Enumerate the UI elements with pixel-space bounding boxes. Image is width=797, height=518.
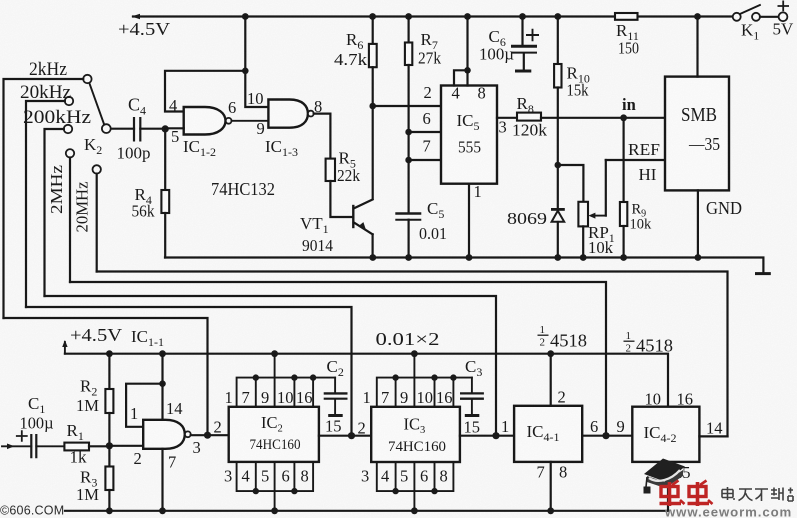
pin 2 label IC3	[358, 419, 366, 438]
wire: IC4-1 pin7/8 to ground	[550, 462, 552, 511]
wire: IC4-2 pin15 to ground	[668, 462, 691, 511]
nand gate IC1-3	[268, 100, 313, 128]
ground symbol	[755, 272, 771, 275]
pin 10 label	[247, 89, 264, 108]
junction dots on top ground rail	[369, 254, 701, 261]
wire: 555 pin6	[409, 131, 441, 133]
pin labels 2 7 3 of IC1-1	[134, 438, 201, 472]
wire: GND lead of SMB	[698, 190, 742, 257]
pin 15 label IC2	[325, 417, 342, 436]
junction dots on +5V rail	[242, 13, 701, 20]
label IC1-2	[183, 137, 216, 159]
watermark site name characters	[722, 487, 793, 501]
capacitor C5	[395, 199, 447, 258]
resistor R3	[76, 446, 113, 511]
junction node C4/R4/pin5	[162, 125, 169, 132]
switch K2 pole and arm	[84, 83, 111, 157]
junction dot collector node	[369, 103, 376, 110]
wire: 555 pin1 to ground rail	[468, 184, 470, 258]
resistor R6	[334, 17, 377, 199]
junction node R1/R2/R3	[106, 442, 113, 449]
wire: +4.5V bottom rail	[62, 340, 668, 407]
label IC1-3	[265, 137, 298, 159]
resistor R5	[326, 149, 361, 186]
wire: IC2 pin15 to IC3 pin2	[319, 432, 371, 439]
capacitor C6	[479, 17, 539, 72]
op IC5 555 timer box	[441, 86, 497, 184]
wire: 200kHz feedback line	[45, 296, 497, 436]
junction dot zener node	[555, 162, 562, 169]
pin labels 1 14 of IC1-1	[130, 399, 183, 423]
pin labels 10 16 of IC4-2	[645, 390, 694, 409]
IC3 bottom pin labels 3 4 5 6 8	[361, 467, 448, 486]
wire: pin14 drop from rail	[159, 354, 166, 420]
counter IC3 74HC160 box	[371, 407, 460, 462]
wire: 2kHz feedback line	[4, 318, 208, 435]
IC2 bottom pin labels 3 4 5 6 8	[224, 467, 309, 486]
pin 9 label	[257, 119, 265, 138]
pin 2 label IC2	[214, 418, 222, 437]
wire: IC4-1 pin2 drop from rail	[550, 354, 552, 406]
switch K1	[733, 5, 779, 43]
wire: gate IC1-2 output to IC1-3 input	[232, 120, 269, 122]
pin 1 label IC4-1	[501, 417, 509, 436]
wire: 20kHz feedback line	[26, 307, 352, 436]
pin 4 label	[169, 96, 177, 115]
wire: REF line to SMB	[606, 159, 665, 161]
wire: rail drop to SMB top	[696, 17, 698, 77]
555 pin labels 2 6 7 4 8 3 1	[423, 83, 507, 201]
resistor R9	[620, 118, 652, 258]
node +4.5V label (top rail)	[118, 19, 170, 39]
terminal +5V	[773, 1, 795, 39]
IC2 top pin stubs and bus	[237, 354, 336, 407]
terminal 2kHz	[4, 59, 92, 318]
paper grain overlay	[0, 0, 1, 1]
watermark 606.COM (bottom left)	[0, 504, 64, 518]
module SMB-35 box	[665, 77, 729, 191]
wire: bottom ground rail	[65, 510, 668, 512]
nand gate IC1-1	[143, 420, 191, 449]
junction dots on R7/C5 branch	[405, 129, 412, 164]
pin 8 label	[314, 97, 322, 116]
counter IC4-1 box	[514, 406, 582, 462]
wire: zener node to RP1 top	[558, 165, 584, 202]
nand gate IC1-2	[184, 107, 232, 135]
wire: 555 pin4 to Vcc branch	[454, 67, 471, 86]
junction dots on bottom +4.5V rail	[106, 350, 554, 357]
label VT1 9014	[300, 214, 333, 255]
label +4.5V (bottom)	[70, 325, 122, 345]
wire: node to pin5 of IC1-2	[165, 127, 184, 129]
wire: IC4-1 pin6 to IC4-2 pin9	[582, 432, 632, 439]
terminal 20MHz	[73, 165, 101, 271]
node in: junction dot and label	[620, 95, 636, 121]
potentiometer RP1	[578, 202, 614, 258]
label 1/2 4518 (first)	[538, 324, 588, 351]
IC2 top pin labels 1 7 9 10 16	[225, 388, 313, 407]
terminal 200kHz	[23, 107, 91, 296]
capacitor C2	[324, 357, 348, 416]
capacitor C4	[111, 95, 165, 163]
wire: pin7 to ground rail	[161, 449, 163, 511]
resistor R2	[76, 354, 113, 446]
terminal 2MHz	[47, 149, 74, 282]
wire: 2MHz feedback line	[70, 282, 606, 436]
capacitor C1	[2, 394, 64, 458]
pin REF label	[628, 140, 660, 159]
wire: R5 to VT1 base	[330, 181, 352, 217]
zener diode 8069	[507, 208, 565, 258]
resistor R8	[497, 94, 665, 140]
terminal 20kHz	[20, 82, 73, 307]
wire: top-section ground rail	[165, 258, 763, 273]
pin HI label	[639, 165, 657, 184]
wire: 555 pin7	[409, 159, 441, 161]
transistor VT1	[353, 200, 372, 258]
pin 2 label IC4-1	[558, 388, 566, 407]
resistor R10	[554, 17, 590, 210]
label IC1-1	[131, 327, 164, 349]
IC2 bottom pin stubs and bus	[237, 462, 314, 511]
wire: pin4 feedback loop of IC1-2	[165, 71, 245, 112]
wire: +5V top supply rail	[132, 14, 733, 20]
pin 5 label	[171, 127, 179, 146]
wire: RP1 wiper up to REF	[605, 160, 607, 216]
wire: pin8/Vcc drop from rail	[466, 17, 468, 86]
pin 15 label IC3	[464, 418, 481, 437]
label 74HC132	[211, 179, 275, 199]
label 0.01x2	[376, 329, 440, 349]
IC3 bottom pin stubs and bus	[377, 462, 454, 511]
resistor R11	[615, 13, 639, 58]
watermark red bug characters	[660, 481, 713, 507]
capacitor C3	[460, 357, 484, 416]
pin labels 6 9	[590, 417, 625, 436]
wire: IC3 pin15 to IC4-1 pin1	[460, 432, 514, 439]
junction dots on bottom ground rail	[106, 507, 554, 514]
resistor R1	[64, 421, 109, 467]
label 1/2 4518 (second)	[624, 330, 674, 356]
counter IC2 74HC160 box	[229, 407, 319, 462]
pin labels 7 8 of IC4-1	[537, 463, 568, 482]
pin 6 label	[228, 98, 236, 117]
counter IC4-2 box	[632, 407, 699, 462]
IC3 top pin stubs and bus	[377, 354, 472, 407]
wire: 20MHz feedback line	[97, 272, 728, 437]
wire: IC4-2 pin14 output	[699, 419, 727, 438]
watermark www.eeworm.com	[664, 505, 792, 518]
wire: rail drop to gates feedback	[242, 17, 268, 108]
IC3 top pin labels 1 7 9 10 16	[363, 388, 453, 407]
watermark graduation cap	[644, 459, 686, 494]
wire: pin1 tie loop	[126, 384, 162, 427]
resistor R7	[405, 17, 442, 214]
wire: IC1-1 output to IC2 pin2	[191, 432, 229, 439]
resistor R4	[132, 129, 170, 258]
wire: 555 pin2 to collector node	[373, 105, 441, 107]
wire: node to pin2 of IC1-1	[109, 445, 143, 447]
wire: IC1-3 output down to R5	[314, 114, 331, 159]
